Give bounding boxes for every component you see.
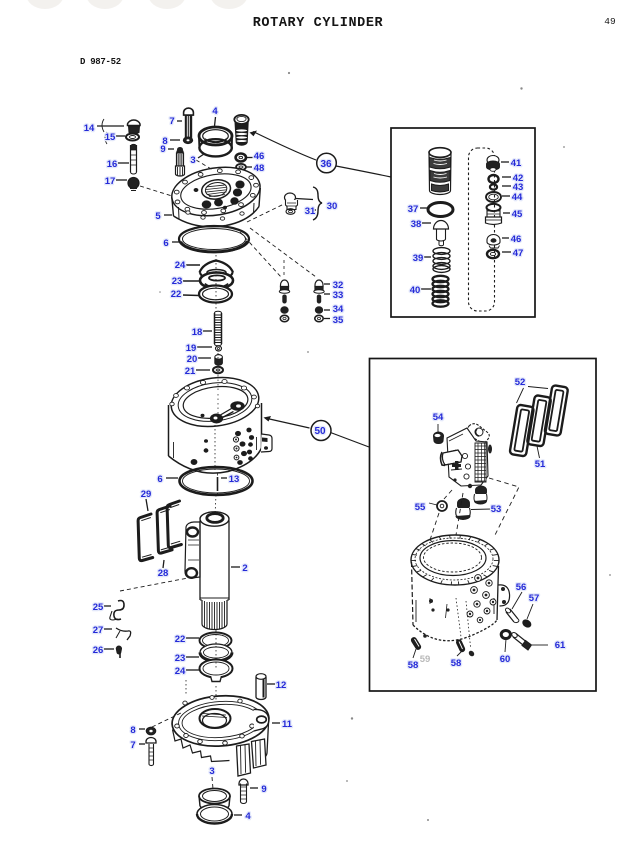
- svg-text:28: 28: [158, 568, 169, 579]
- svg-text:9: 9: [261, 784, 266, 795]
- svg-text:25: 25: [93, 602, 104, 613]
- svg-text:26: 26: [93, 645, 104, 656]
- svg-text:52: 52: [515, 377, 526, 388]
- svg-text:36: 36: [320, 159, 332, 170]
- svg-text:58: 58: [408, 660, 419, 671]
- svg-text:59: 59: [420, 654, 431, 665]
- svg-text:30: 30: [327, 201, 338, 212]
- svg-text:24: 24: [175, 666, 186, 677]
- svg-text:47: 47: [513, 248, 524, 259]
- svg-text:56: 56: [516, 582, 527, 593]
- svg-text:22: 22: [175, 634, 186, 645]
- svg-text:14: 14: [84, 123, 95, 134]
- svg-text:20: 20: [187, 354, 198, 365]
- svg-text:5: 5: [155, 211, 161, 222]
- svg-text:50: 50: [314, 426, 326, 437]
- svg-text:12: 12: [276, 680, 287, 691]
- svg-text:44: 44: [512, 192, 523, 203]
- svg-text:21: 21: [185, 366, 196, 377]
- svg-text:60: 60: [500, 654, 511, 665]
- svg-text:51: 51: [535, 459, 546, 470]
- svg-text:58: 58: [451, 658, 462, 669]
- svg-text:41: 41: [511, 158, 522, 169]
- svg-text:22: 22: [171, 289, 182, 300]
- svg-text:D 987-52: D 987-52: [80, 57, 121, 67]
- svg-text:61: 61: [555, 640, 566, 651]
- svg-text:ROTARY CYLINDER: ROTARY CYLINDER: [253, 16, 384, 31]
- svg-text:48: 48: [254, 163, 265, 174]
- svg-text:24: 24: [175, 260, 186, 271]
- svg-text:35: 35: [333, 315, 344, 326]
- svg-text:49: 49: [604, 16, 616, 27]
- svg-text:40: 40: [410, 285, 421, 296]
- svg-text:46: 46: [511, 234, 522, 245]
- svg-text:11: 11: [282, 719, 293, 730]
- svg-text:27: 27: [93, 625, 104, 636]
- svg-text:8: 8: [130, 725, 135, 736]
- svg-text:34: 34: [333, 304, 344, 315]
- svg-text:18: 18: [192, 327, 203, 338]
- svg-text:53: 53: [491, 504, 502, 515]
- svg-text:6: 6: [157, 474, 162, 485]
- svg-text:2: 2: [242, 563, 247, 574]
- svg-text:4: 4: [245, 811, 251, 822]
- svg-text:13: 13: [229, 474, 240, 485]
- svg-text:6: 6: [163, 238, 168, 249]
- svg-text:46: 46: [254, 151, 265, 162]
- svg-text:7: 7: [130, 740, 135, 751]
- svg-text:39: 39: [413, 253, 424, 264]
- svg-text:54: 54: [433, 412, 444, 423]
- svg-text:37: 37: [408, 204, 419, 215]
- svg-text:55: 55: [415, 502, 426, 513]
- svg-text:23: 23: [175, 653, 186, 664]
- svg-text:23: 23: [172, 276, 183, 287]
- svg-text:38: 38: [411, 219, 422, 230]
- svg-text:33: 33: [333, 290, 344, 301]
- svg-text:15: 15: [105, 132, 116, 143]
- svg-text:9: 9: [160, 144, 165, 155]
- svg-text:19: 19: [186, 343, 197, 354]
- svg-text:4: 4: [212, 106, 218, 117]
- svg-text:3: 3: [209, 766, 214, 777]
- svg-text:31: 31: [305, 206, 316, 217]
- svg-text:17: 17: [105, 176, 116, 187]
- svg-text:29: 29: [141, 489, 152, 500]
- svg-text:3: 3: [190, 155, 195, 166]
- svg-text:57: 57: [529, 593, 540, 604]
- svg-text:16: 16: [107, 159, 118, 170]
- svg-text:7: 7: [169, 116, 174, 127]
- svg-text:45: 45: [512, 209, 523, 220]
